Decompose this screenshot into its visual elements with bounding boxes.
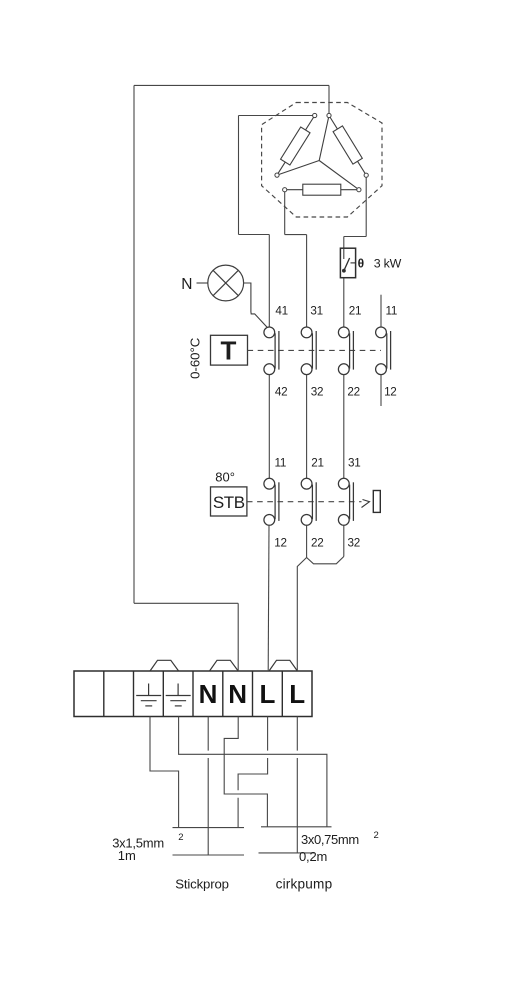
ground symbol terminal 3 (136, 684, 161, 706)
switch linkage dash (351, 262, 356, 264)
bridge bump over L terminals (269, 660, 297, 671)
svg-text:2: 2 (374, 830, 379, 841)
wire down to thermostat contact 31 (306, 235, 308, 328)
STB linkage dashed line (247, 501, 362, 503)
svg-text:T: T (221, 336, 237, 366)
wire drop to N bridge (237, 603, 239, 670)
wire ground1 to plug cable (150, 717, 179, 828)
STB contact labels (274, 457, 360, 550)
terminal G (357, 188, 361, 192)
wire D-branch step horizontal (239, 234, 270, 236)
wire E step horizontal (344, 236, 366, 238)
thermostat pole 41-42 (264, 327, 279, 375)
svg-text:1m: 1m (118, 848, 136, 863)
ground symbol terminal 4 (166, 684, 191, 706)
wire top feed horizontal (134, 84, 329, 86)
wire down to thermostat contact 41 (268, 235, 270, 328)
wire resistor R3 axis (285, 189, 359, 191)
terminal E (364, 173, 368, 177)
terminal A (327, 113, 331, 117)
wire junction to L2 (297, 558, 306, 671)
wire N2 to pump cable (224, 717, 267, 827)
wire STB 22 down (306, 525, 308, 557)
svg-text:Stickprop: Stickprop (175, 876, 229, 891)
switch pivot dot (342, 269, 346, 273)
wire feed to terminal D horizontal (239, 115, 314, 117)
wire L2 to pump cable (break at crossing) (296, 717, 298, 853)
STB reset arrowhead (362, 500, 370, 508)
wire link 22-32 (307, 557, 344, 564)
svg-text:41: 41 (275, 305, 287, 318)
cable line pump bottom (259, 852, 315, 854)
svg-text:11: 11 (386, 305, 398, 318)
cable line plug bottom (173, 854, 245, 856)
svg-text:0,2m: 0,2m (299, 849, 327, 864)
wire left bottom horizontal to N bridge (134, 602, 238, 604)
svg-text:cirkpump: cirkpump (276, 876, 333, 891)
resistor R1 (281, 127, 310, 165)
svg-text:21: 21 (349, 305, 361, 318)
wire lamp to contact 41 (244, 283, 268, 327)
svg-text:31: 31 (348, 457, 360, 470)
terminal F (283, 188, 287, 192)
wire N1 to plug cable (break at crossing) (207, 717, 209, 856)
STB box (211, 487, 247, 516)
thermostat pole 11-12 (376, 327, 391, 375)
wire into thermal switch (343, 237, 345, 260)
svg-text:32: 32 (348, 537, 360, 550)
svg-text:42: 42 (275, 386, 287, 399)
cable line pump top (261, 826, 332, 828)
svg-text:80°: 80° (215, 470, 235, 485)
STB pole 21-22 (301, 478, 316, 525)
svg-text:12: 12 (384, 386, 396, 399)
wire STB 32 down (343, 525, 345, 556)
STB reset button rectangle (373, 491, 380, 513)
svg-text:L: L (289, 679, 305, 709)
thermostat box (211, 335, 248, 365)
heating element assembly dashed enclosure (262, 103, 382, 218)
wire stub to contact 11 (380, 295, 382, 328)
svg-text:N: N (199, 679, 218, 709)
wire re-entering switch stub (343, 248, 345, 259)
svg-text:22: 22 (347, 386, 359, 399)
cable line plug top (173, 827, 245, 829)
wire 12 stub (380, 375, 382, 406)
thermostat contact labels (275, 305, 397, 399)
wire left side vertical (133, 85, 135, 603)
wire F step horizontal (285, 234, 307, 236)
switch blade (344, 258, 350, 271)
bridge bump over ground terminals (150, 660, 179, 671)
wire ground2 to pump cable (179, 717, 327, 827)
resistor R3 (303, 184, 341, 195)
svg-text:0-60°C: 0-60°C (188, 337, 203, 379)
svg-text:3x0,75mm: 3x0,75mm (301, 832, 359, 847)
svg-text:32: 32 (311, 386, 323, 399)
svg-text:STB: STB (213, 493, 245, 512)
terminal B (275, 173, 279, 177)
terminal block outline (74, 671, 312, 717)
terminal D (313, 113, 317, 117)
terminal block dividers (104, 671, 282, 717)
svg-text:22: 22 (311, 537, 323, 550)
svg-text:N: N (228, 679, 247, 709)
STB pole 11-12 (264, 478, 279, 525)
wire 32 to STB 21 (306, 375, 308, 479)
bridge bump over N terminals (210, 660, 239, 671)
wire feed drop to star terminal A (328, 85, 330, 113)
thermostat linkage dashed line (248, 349, 382, 351)
star point wires (277, 116, 359, 190)
wire resistor R1 axis (277, 116, 315, 176)
wire thermal switch to contact 21 (343, 278, 345, 328)
svg-text:θ: θ (358, 256, 365, 270)
STB pole 31-32 (338, 478, 353, 525)
indicator lamp (208, 265, 244, 301)
wire STB 12 down to L bridge (267, 525, 270, 670)
svg-text:31: 31 (310, 305, 322, 318)
svg-text:3 kW: 3 kW (374, 256, 402, 270)
thermal cutout switch 3 kW box (340, 248, 355, 278)
thermostat pole 31-32 (301, 327, 316, 375)
wire from terminal E down (365, 177, 367, 237)
wire resistor R2 axis (329, 116, 366, 176)
svg-text:2: 2 (178, 832, 183, 843)
svg-text:L: L (260, 679, 276, 709)
resistor R2 (333, 126, 362, 164)
svg-text:21: 21 (311, 457, 323, 470)
wire 22 to STB 31 (343, 375, 345, 479)
terminal letters N N L L (199, 679, 306, 709)
wire 42 to STB 11 (268, 375, 270, 479)
svg-text:12: 12 (274, 537, 286, 550)
wire D-branch vertical (238, 116, 240, 235)
wire lamp left stub (197, 282, 208, 284)
thermostat pole 21-22 (338, 327, 353, 375)
wire L1 to plug cable (breaks at crossings) (238, 717, 268, 828)
svg-text:11: 11 (275, 457, 287, 470)
wire from terminal F down (284, 192, 286, 235)
svg-text:N: N (181, 276, 192, 293)
